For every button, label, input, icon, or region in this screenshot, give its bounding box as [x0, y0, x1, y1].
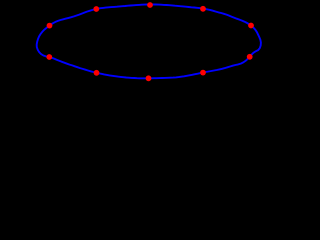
point P10 (lower right) — [247, 54, 253, 60]
point P3 (top center) — [147, 2, 153, 8]
point P9 (bottom right) — [200, 70, 206, 76]
point P5 (upper right) — [248, 23, 254, 29]
point P4 (top right) — [200, 6, 206, 12]
point P8 (bottom center) — [146, 75, 152, 81]
orbit ellipse — [37, 5, 261, 79]
point P7 (bottom left) — [94, 70, 100, 76]
point P1 (upper left) — [47, 23, 53, 29]
point P6 (lower left) — [46, 54, 52, 60]
point P2 (top left) — [93, 6, 99, 12]
